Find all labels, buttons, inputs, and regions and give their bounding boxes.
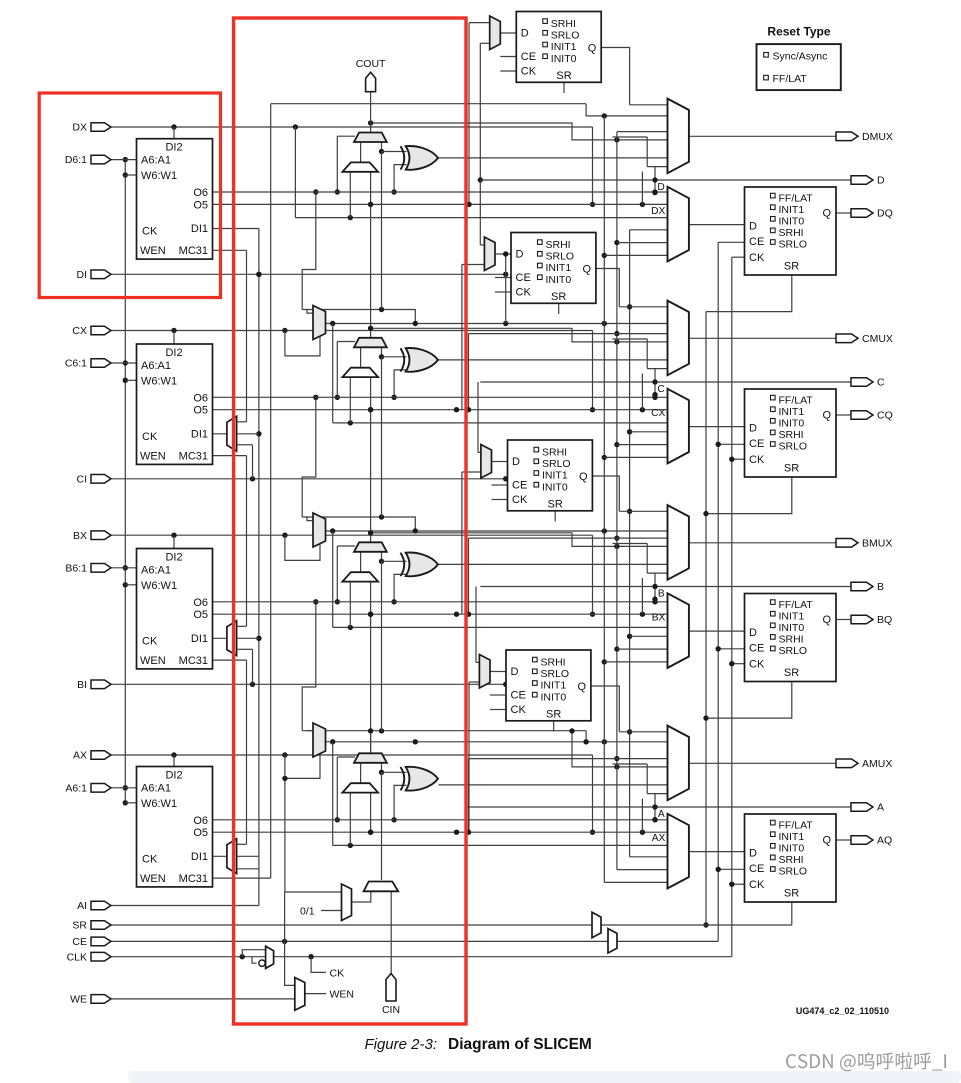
svg-text:B: B: [658, 589, 665, 600]
svg-text:INIT1: INIT1: [551, 41, 577, 53]
svg-text:DI2: DI2: [165, 770, 182, 782]
svg-text:FF/LAT: FF/LAT: [773, 73, 808, 85]
svg-text:CX: CX: [72, 325, 87, 337]
svg-text:DI2: DI2: [165, 552, 182, 564]
svg-text:Reset Type: Reset Type: [767, 25, 830, 39]
svg-text:DI1: DI1: [191, 633, 208, 645]
svg-text:Q: Q: [579, 471, 588, 483]
svg-text:A: A: [658, 809, 665, 820]
svg-text:WEN: WEN: [140, 451, 166, 463]
svg-text:DX: DX: [651, 206, 665, 217]
svg-text:SRLO: SRLO: [542, 458, 571, 470]
svg-text:CK: CK: [511, 704, 527, 716]
svg-text:BI: BI: [77, 679, 87, 691]
svg-text:O5: O5: [193, 405, 208, 417]
svg-text:SR: SR: [784, 667, 799, 679]
svg-text:W6:W1: W6:W1: [141, 375, 177, 387]
svg-text:W6:W1: W6:W1: [141, 580, 177, 592]
svg-text:INIT0: INIT0: [779, 843, 805, 855]
svg-text:DX: DX: [72, 122, 87, 134]
svg-text:DI1: DI1: [191, 223, 208, 235]
svg-text:Q: Q: [822, 410, 831, 422]
svg-text:SR: SR: [546, 709, 561, 721]
svg-text:SRHI: SRHI: [546, 239, 571, 251]
svg-text:CQ: CQ: [877, 410, 893, 422]
svg-text:O6: O6: [193, 392, 208, 404]
svg-text:SRLO: SRLO: [779, 645, 808, 657]
svg-text:INIT1: INIT1: [779, 406, 805, 418]
svg-text:CI: CI: [77, 473, 88, 485]
svg-text:Q: Q: [822, 835, 831, 847]
svg-text:SR: SR: [784, 888, 799, 900]
svg-text:FF/LAT: FF/LAT: [779, 394, 814, 406]
svg-text:SRHI: SRHI: [541, 656, 566, 668]
svg-text:CK: CK: [749, 252, 765, 264]
svg-text:CE: CE: [516, 272, 531, 284]
svg-text:D6:1: D6:1: [65, 154, 87, 166]
svg-text:CX: CX: [651, 408, 665, 419]
svg-text:C6:1: C6:1: [65, 358, 87, 370]
svg-text:CMUX: CMUX: [862, 333, 893, 345]
svg-text:C: C: [657, 384, 664, 395]
svg-text:CK: CK: [142, 636, 158, 648]
svg-text:INIT0: INIT0: [779, 622, 805, 634]
svg-text:0/1: 0/1: [300, 906, 315, 918]
svg-text:SRHI: SRHI: [779, 634, 804, 646]
svg-text:INIT1: INIT1: [779, 204, 805, 216]
svg-text:BX: BX: [73, 530, 87, 542]
svg-text:INIT1: INIT1: [546, 262, 572, 274]
svg-text:INIT0: INIT0: [779, 216, 805, 228]
svg-text:O6: O6: [193, 815, 208, 827]
svg-text:DQ: DQ: [877, 208, 893, 220]
svg-text:A: A: [877, 802, 884, 814]
svg-text:WEN: WEN: [140, 873, 166, 885]
svg-text:Figure 2-3:: Figure 2-3:: [364, 1036, 437, 1053]
svg-text:B: B: [877, 581, 884, 593]
svg-text:Q: Q: [577, 681, 586, 693]
svg-text:D: D: [512, 456, 520, 468]
svg-text:O6: O6: [193, 187, 208, 199]
svg-text:INIT0: INIT0: [542, 481, 568, 493]
svg-text:O6: O6: [193, 597, 208, 609]
svg-text:CK: CK: [749, 879, 765, 891]
svg-text:D: D: [657, 182, 664, 193]
svg-text:Q: Q: [822, 614, 831, 626]
svg-text:D: D: [749, 627, 757, 639]
svg-text:D: D: [749, 848, 757, 860]
svg-text:CK: CK: [142, 854, 158, 866]
svg-text:CK: CK: [330, 968, 345, 980]
svg-text:A6:1: A6:1: [65, 782, 87, 794]
svg-text:D: D: [521, 28, 529, 40]
svg-text:CE: CE: [72, 936, 87, 948]
svg-text:CK: CK: [516, 287, 532, 299]
svg-text:AQ: AQ: [877, 835, 892, 847]
svg-text:BMUX: BMUX: [862, 537, 892, 549]
svg-text:BX: BX: [652, 612, 666, 623]
svg-text:INIT0: INIT0: [779, 418, 805, 430]
svg-text:MC31: MC31: [179, 245, 208, 257]
svg-text:CK: CK: [749, 454, 765, 466]
svg-text:CK: CK: [142, 226, 158, 238]
svg-text:DI1: DI1: [191, 428, 208, 440]
svg-text:SRLO: SRLO: [546, 251, 575, 263]
svg-text:INIT0: INIT0: [551, 53, 577, 65]
svg-text:UG474_c2_02_110510: UG474_c2_02_110510: [796, 1006, 889, 1016]
svg-text:CLK: CLK: [67, 951, 87, 963]
svg-text:WE: WE: [70, 994, 87, 1006]
svg-text:D: D: [749, 221, 757, 233]
svg-text:DI: DI: [77, 269, 88, 281]
svg-text:W6:W1: W6:W1: [141, 170, 177, 182]
svg-text:INIT0: INIT0: [546, 274, 572, 286]
svg-text:AI: AI: [77, 900, 87, 912]
svg-text:D: D: [516, 249, 524, 261]
svg-text:DI2: DI2: [165, 142, 182, 154]
svg-text:SRLO: SRLO: [551, 30, 580, 42]
svg-text:Q: Q: [588, 43, 597, 55]
svg-text:DI2: DI2: [165, 347, 182, 359]
svg-text:SRLO: SRLO: [779, 866, 808, 878]
svg-text:AX: AX: [73, 750, 87, 762]
svg-text:C: C: [877, 377, 885, 389]
svg-text:SR: SR: [72, 920, 87, 932]
svg-text:SRHI: SRHI: [779, 429, 804, 441]
svg-text:BQ: BQ: [877, 614, 892, 626]
svg-text:CE: CE: [511, 690, 526, 702]
svg-text:D: D: [511, 666, 519, 678]
svg-text:MC31: MC31: [179, 451, 208, 463]
svg-text:WEN: WEN: [140, 655, 166, 667]
svg-text:SR: SR: [548, 499, 563, 511]
svg-text:A6:A1: A6:A1: [141, 565, 171, 577]
svg-text:SRHI: SRHI: [542, 446, 567, 458]
svg-text:INIT1: INIT1: [541, 680, 567, 692]
svg-text:WEN: WEN: [140, 245, 166, 257]
svg-text:SR: SR: [784, 463, 799, 475]
svg-text:A6:A1: A6:A1: [141, 783, 171, 795]
svg-text:CK: CK: [512, 494, 528, 506]
svg-text:CE: CE: [749, 643, 764, 655]
svg-text:CIN: CIN: [382, 1004, 400, 1016]
svg-text:SRHI: SRHI: [551, 18, 576, 30]
svg-text:CE: CE: [749, 236, 764, 248]
svg-text:W6:W1: W6:W1: [141, 798, 177, 810]
svg-text:SRHI: SRHI: [779, 854, 804, 866]
svg-text:FF/LAT: FF/LAT: [779, 599, 814, 611]
svg-text:Sync/Async: Sync/Async: [773, 50, 828, 62]
svg-text:Diagram of SLICEM: Diagram of SLICEM: [448, 1036, 592, 1053]
svg-text:O5: O5: [193, 199, 208, 211]
svg-text:FF/LAT: FF/LAT: [779, 819, 814, 831]
svg-text:MC31: MC31: [179, 655, 208, 667]
svg-text:INIT1: INIT1: [542, 470, 568, 482]
svg-text:CE: CE: [749, 438, 764, 450]
svg-text:Q: Q: [582, 264, 591, 276]
svg-text:CE: CE: [521, 51, 536, 63]
svg-text:SRLO: SRLO: [779, 239, 808, 251]
svg-text:CK: CK: [749, 659, 765, 671]
svg-text:INIT1: INIT1: [779, 610, 805, 622]
svg-text:SR: SR: [551, 291, 566, 303]
svg-text:O5: O5: [193, 609, 208, 621]
svg-text:D: D: [749, 423, 757, 435]
svg-text:O5: O5: [193, 827, 208, 839]
svg-text:AX: AX: [652, 833, 666, 844]
svg-text:COUT: COUT: [356, 58, 386, 70]
svg-text:SR: SR: [556, 70, 571, 82]
svg-text:INIT0: INIT0: [541, 691, 567, 703]
svg-text:SR: SR: [784, 261, 799, 273]
svg-text:D: D: [877, 175, 885, 187]
svg-text:CE: CE: [512, 480, 527, 492]
svg-text:FF/LAT: FF/LAT: [779, 192, 814, 204]
svg-text:SRLO: SRLO: [779, 441, 808, 453]
svg-text:CK: CK: [142, 431, 158, 443]
svg-text:A6:A1: A6:A1: [141, 155, 171, 167]
svg-text:AMUX: AMUX: [862, 758, 892, 770]
svg-text:WEN: WEN: [330, 988, 355, 1000]
svg-text:CK: CK: [521, 66, 537, 78]
svg-text:INIT1: INIT1: [779, 831, 805, 843]
svg-text:CE: CE: [749, 863, 764, 875]
svg-text:B6:1: B6:1: [65, 562, 87, 574]
svg-text:DI1: DI1: [191, 851, 208, 863]
svg-text:A6:A1: A6:A1: [141, 360, 171, 372]
svg-text:SRLO: SRLO: [541, 668, 570, 680]
svg-text:DMUX: DMUX: [862, 131, 893, 143]
svg-text:Q: Q: [822, 208, 831, 220]
svg-text:MC31: MC31: [179, 873, 208, 885]
svg-text:SRHI: SRHI: [779, 227, 804, 239]
